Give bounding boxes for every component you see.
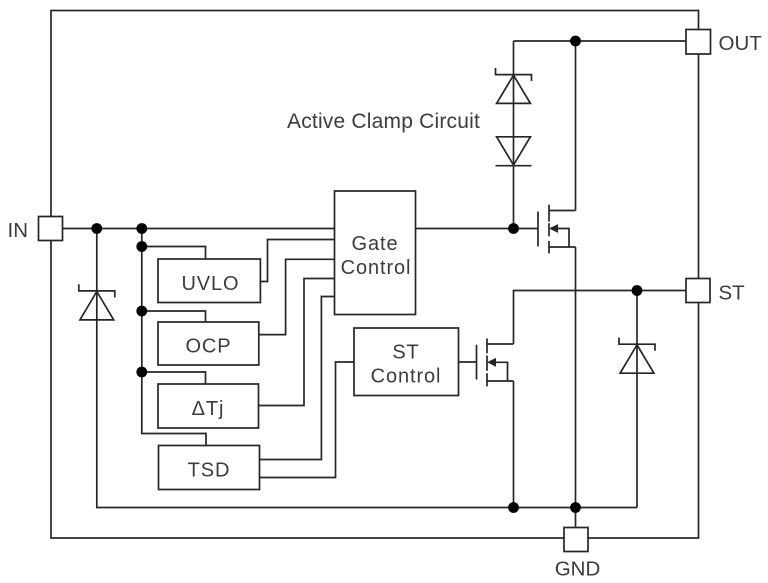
svg-text:ST: ST (719, 282, 746, 305)
svg-text:Gate: Gate (352, 233, 399, 255)
block Gate Control (335, 191, 416, 315)
wire active clamp branch (513, 41, 515, 229)
wire ST zener branch (636, 291, 638, 508)
junction dot bus UVLO tap (136, 241, 147, 252)
pin GND (564, 528, 588, 552)
junction dot OUT line (570, 36, 581, 47)
wire control bus from IN line to TSD (142, 229, 206, 446)
transistor Q2 ST MOSFET (477, 339, 514, 387)
pin ST (686, 279, 710, 303)
wire TSD output to ST Control (260, 362, 355, 478)
junction dot ground rail Q2 source (508, 502, 519, 513)
junction dot bus dTj tap (136, 367, 147, 378)
svg-text:Active Clamp Circuit: Active Clamp Circuit (287, 110, 480, 133)
wire ST Control output to Q2 gate (459, 361, 477, 363)
svg-text:Control: Control (371, 366, 442, 388)
wire TSD output to Gate Control (260, 297, 335, 460)
junction dot on IN line at control bus (136, 223, 147, 234)
diode D3 active clamp bottom (496, 137, 532, 166)
IC outline frame (51, 11, 699, 539)
pin GND label (555, 558, 601, 581)
svg-text:ΔTj: ΔTj (192, 398, 225, 420)
wire bus to OCP input (142, 311, 206, 322)
wire OUT line (514, 40, 687, 42)
zener diode D4 at ST (619, 338, 655, 374)
svg-text:ST: ST (392, 342, 419, 364)
junction dot on IN line at zener branch (91, 223, 102, 234)
wire dTj output to Gate Control (259, 279, 335, 406)
junction dot ST line (632, 285, 643, 296)
pin OUT (686, 30, 711, 55)
svg-text:UVLO: UVLO (181, 273, 239, 295)
internal ground rail wire (97, 229, 637, 508)
pin ST label (719, 282, 746, 305)
svg-text:IN: IN (8, 219, 29, 242)
wire Q1 drain to OUT line (575, 41, 577, 211)
wire Q2 source to ground rail (513, 381, 515, 508)
block ST Control (354, 328, 459, 396)
wire Q1 source to ground rail and GND pin (575, 247, 577, 528)
wire Gate Control output to Q1 gate (416, 228, 539, 230)
zener diode D2 active clamp top (496, 68, 532, 103)
svg-text:OUT: OUT (719, 32, 763, 55)
zener diode D1 at IN (79, 284, 115, 320)
wire IN line to Gate Control (63, 228, 335, 230)
wire OCP output to Gate Control (259, 259, 335, 334)
pin IN (39, 217, 63, 241)
svg-text:TSD: TSD (188, 460, 231, 482)
wire bus to UVLO input (142, 247, 206, 260)
pin OUT label (719, 32, 763, 55)
block UVLO (158, 259, 260, 303)
junction dot gate node clamp (508, 223, 519, 234)
block TSD (159, 446, 260, 490)
transistor Q1 output MOSFET (538, 205, 576, 254)
block OCP (158, 322, 259, 365)
wire UVLO output to Gate Control (260, 240, 335, 282)
block dTj (158, 384, 259, 428)
svg-text:Control: Control (341, 257, 412, 279)
svg-text:OCP: OCP (185, 336, 231, 358)
junction dot bus OCP tap (136, 306, 147, 317)
wire ST line (514, 291, 687, 345)
junction dot ground rail GND (570, 502, 581, 513)
label Active Clamp Circuit (287, 110, 480, 133)
wire bus to dTj input (142, 372, 206, 384)
pin IN label (8, 219, 29, 242)
svg-text:GND: GND (555, 558, 601, 581)
